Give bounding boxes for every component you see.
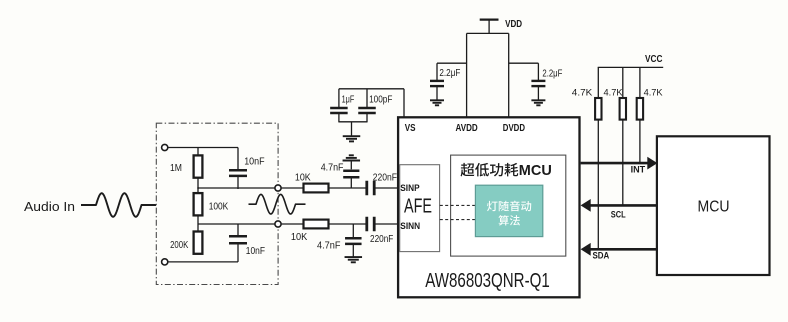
- capacitor C 2.2uF (left): [436, 63, 438, 80]
- wire: INT line: [581, 162, 649, 165]
- wire: branch to right 2.2uF: [509, 62, 539, 64]
- arrow into MCU (INT): [647, 157, 657, 170]
- dashed link AFE to algorithm (upper): [440, 204, 476, 206]
- power symbol VDD: [480, 18, 499, 20]
- wire: P node to R 10K top: [281, 187, 304, 189]
- node: bottom-left input terminal: [162, 259, 168, 265]
- wire: caps common bottom: [339, 121, 367, 123]
- svg-text:10nF: 10nF: [246, 246, 265, 257]
- svg-text:VCC: VCC: [645, 54, 663, 65]
- resistor R 200K: [194, 232, 203, 254]
- wire: DVDD rail: [508, 33, 510, 118]
- wire: bottom rail from terminal to 10nF C-bot: [168, 261, 238, 263]
- svg-text:DVDD: DVDD: [503, 123, 525, 134]
- svg-text:AVDD: AVDD: [456, 123, 478, 134]
- wire: SDA line: [590, 248, 658, 251]
- resistor R 4.7K (right, INT pullup): [639, 67, 641, 99]
- wire: 10K bottom to 220nF bottom: [329, 223, 367, 225]
- arrow into IC (SDA): [581, 243, 591, 256]
- ground (below left 2.2uF): [430, 99, 444, 101]
- resistor R 4.7K (left, SDA pullup): [597, 67, 599, 99]
- svg-text:4.7K: 4.7K: [644, 88, 663, 98]
- AFE block: [400, 165, 440, 252]
- svg-text:SINP: SINP: [400, 183, 420, 194]
- capacitor C 4.7nF (bottom): [352, 224, 354, 239]
- wire: VS rail: [339, 88, 404, 90]
- label: 超低功耗MCU: [461, 163, 475, 177]
- svg-text:AFE: AFE: [404, 195, 432, 217]
- low-power MCU block: [451, 155, 566, 256]
- svg-text:MCU: MCU: [519, 163, 552, 179]
- wire: 10K top to 220nF top: [329, 187, 367, 189]
- svg-text:VDD: VDD: [505, 18, 522, 30]
- svg-text:2.2μF: 2.2μF: [542, 68, 562, 79]
- capacitor C 4.7nF (top): [350, 178, 352, 188]
- svg-text:220nF: 220nF: [373, 173, 397, 184]
- node: top-left input terminal: [162, 144, 168, 150]
- wire: P row inside box: [198, 187, 275, 189]
- svg-text:4.7nF: 4.7nF: [317, 241, 341, 252]
- capacitor C 10nF (bottom): [229, 235, 247, 238]
- svg-text:10K: 10K: [291, 232, 308, 243]
- svg-text:Audio In: Audio In: [24, 199, 75, 214]
- ground (below 4.7nF bottom): [345, 256, 363, 258]
- wire: top rail from terminal to divider: [168, 147, 238, 149]
- dashed box: input attenuator network: [156, 123, 278, 284]
- resistor R 10K (bottom): [304, 220, 329, 229]
- capacitor C 220nF (top, series): [365, 181, 368, 196]
- wire: N row inside box: [198, 223, 275, 225]
- wire: SCL line: [590, 204, 658, 207]
- wire: 100K bottom lead through N node to 200K top: [197, 215, 199, 233]
- wire: ground stem: [351, 122, 353, 136]
- wire: 10nF C-top upper stub: [237, 148, 239, 170]
- svg-text:4.7nF: 4.7nF: [321, 163, 344, 174]
- wire: VS drop to IC: [403, 89, 405, 118]
- wire: N node to R 10K bottom: [281, 223, 304, 225]
- svg-text:AW86803QNR-Q1: AW86803QNR-Q1: [425, 269, 550, 292]
- wire: attenuated sine symbol 2: [249, 194, 306, 214]
- node: N output terminal: [275, 221, 281, 227]
- wire: 220nF bottom to SINN pin: [376, 223, 399, 225]
- capacitor C 2.2uF (right): [537, 63, 539, 80]
- capacitor C 1uF: [338, 89, 340, 107]
- ground (below 1uF/100pF): [343, 135, 361, 137]
- ground (below right 2.2uF): [531, 99, 545, 101]
- op-amp/IC U1 AW86803QNR-Q1 body: [398, 117, 579, 297]
- svg-text:220nF: 220nF: [370, 234, 393, 245]
- svg-text:2.2μF: 2.2μF: [439, 68, 460, 79]
- wire: audio source sine symbol 1: [81, 193, 156, 216]
- svg-text:4.7K: 4.7K: [604, 88, 623, 98]
- MCU U2 body: [657, 136, 770, 275]
- svg-text:10K: 10K: [295, 173, 311, 184]
- svg-text:VS: VS: [405, 123, 416, 134]
- svg-text:1M: 1M: [170, 163, 182, 174]
- wire: VDD tee top: [467, 32, 509, 34]
- capacitor C 100pF: [366, 89, 368, 107]
- wire: 1M bottom lead to P node: [197, 177, 199, 189]
- wire: 1M top lead: [197, 148, 199, 157]
- svg-text:SDA: SDA: [593, 250, 610, 260]
- svg-text:INT: INT: [631, 164, 646, 174]
- capacitor C 10nF (top): [229, 169, 247, 172]
- svg-text:SINN: SINN: [400, 221, 420, 232]
- resistor R 4.7K (middle, SCL pullup): [622, 67, 624, 99]
- wire: 220nF top to SINP pin: [376, 187, 399, 189]
- resistor R 10K (top): [304, 184, 329, 193]
- svg-text:100K: 100K: [209, 202, 229, 213]
- ground (flipped, above 4.7nF top): [343, 160, 361, 162]
- arrow into IC (SCL): [581, 199, 591, 212]
- wire: 100K top lead: [197, 187, 199, 194]
- svg-text:MCU: MCU: [698, 199, 730, 216]
- svg-text:10nF: 10nF: [244, 157, 264, 168]
- svg-text:SCL: SCL: [611, 210, 626, 220]
- svg-text:1μF: 1μF: [342, 94, 355, 105]
- resistor R 1M: [194, 155, 203, 177]
- wire: 10nF C-bot upper stub: [237, 224, 239, 237]
- wire: 10nF C-top lower stub: [237, 177, 239, 190]
- svg-text:100pF: 100pF: [369, 94, 392, 105]
- algorithm block: 灯随音动算法: [475, 185, 542, 236]
- wire: AVDD rail: [466, 33, 468, 118]
- node: P output terminal: [275, 185, 281, 191]
- wire: 10nF C-bot lower stub: [237, 244, 239, 262]
- capacitor C 220nF (bottom, series): [365, 217, 368, 232]
- svg-text:4.7K: 4.7K: [572, 88, 593, 98]
- svg-text:200K: 200K: [170, 240, 189, 251]
- wire: branch to left 2.2uF: [437, 62, 467, 64]
- wire: VCC rail: [598, 66, 664, 68]
- resistor R 100K: [194, 193, 203, 215]
- dashed link AFE to algorithm (lower): [440, 219, 476, 221]
